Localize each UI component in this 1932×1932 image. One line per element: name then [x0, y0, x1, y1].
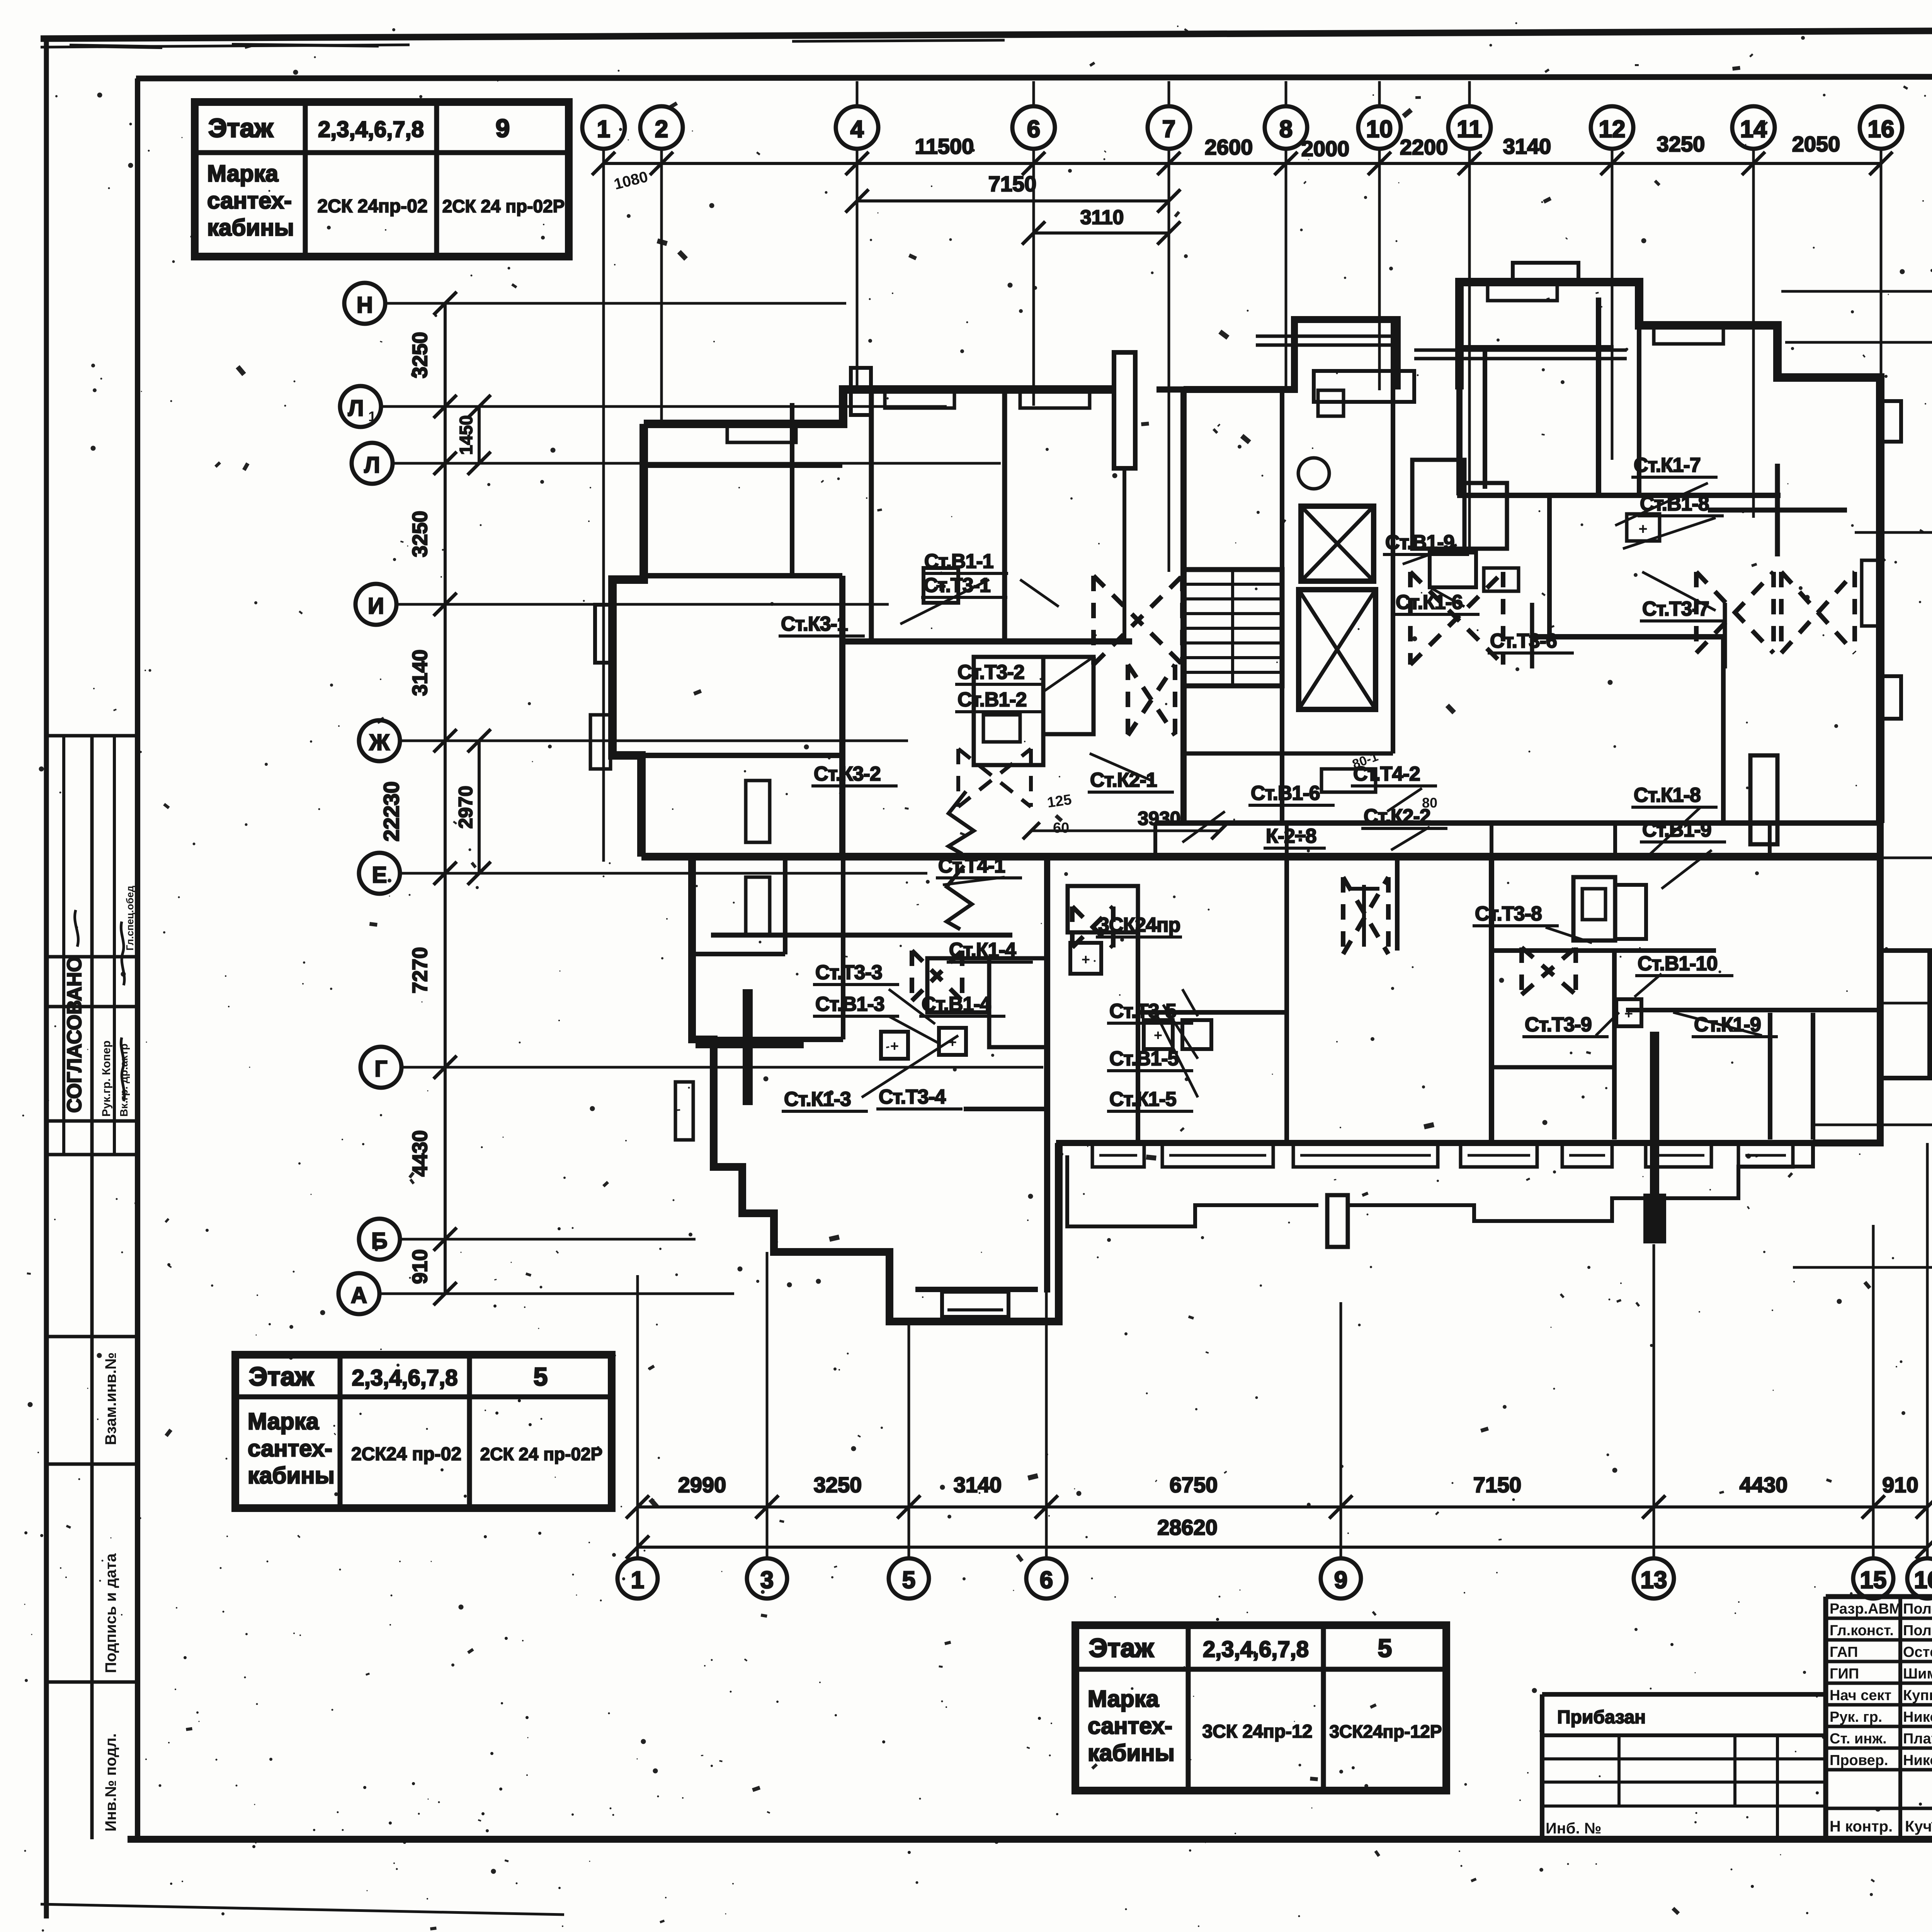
corridor top wall: [1155, 820, 1880, 826]
svg-text:Инб. №: Инб. №: [1546, 1820, 1601, 1837]
lower-right wall east: [1626, 1008, 1878, 1012]
svg-text:Ст.К2-1: Ст.К2-1: [1090, 769, 1157, 791]
svg-text:Остергауз: Остергауз: [1903, 1644, 1932, 1660]
svg-text:3СК24пр-12Р: 3СК24пр-12Р: [1329, 1721, 1442, 1742]
corridor door jambs: [1153, 823, 1157, 857]
lower-left small wall: [964, 1107, 1050, 1111]
page outer border top: [41, 28, 1932, 39]
svg-text:Е: Е: [372, 862, 387, 888]
upper-right room wall: [1457, 493, 1781, 498]
svg-text:Ст.В1-2: Ст.В1-2: [957, 689, 1027, 711]
left secondary dims: [478, 406, 481, 463]
window sills lower-left west steps: [675, 1082, 693, 1140]
svg-text:12: 12: [1599, 116, 1626, 143]
svg-text:Л: Л: [364, 452, 380, 478]
entry canopy: [1314, 371, 1414, 402]
center room wall: [1140, 1010, 1287, 1015]
lower-left cross pier: [696, 1038, 804, 1048]
svg-text:Ст.В1-3: Ст.В1-3: [815, 993, 884, 1015]
svg-text:Николаенко: Николаенко: [1903, 1752, 1932, 1769]
lower-right bathroom cluster: [1573, 877, 1615, 940]
lower-right divider 2: [1612, 952, 1617, 1139]
svg-text:5: 5: [1378, 1634, 1392, 1662]
svg-text:2050: 2050: [1792, 132, 1840, 156]
left sidebar stamp column: [90, 736, 94, 1839]
east balcony bay: [1880, 951, 1930, 1078]
corridor zigzag stack 2: [947, 866, 972, 929]
north window sills upper-left: [727, 424, 796, 442]
axis circle 15 bottom: [1853, 1558, 1893, 1599]
svg-text:2СК 24 пр-02Р: 2СК 24 пр-02Р: [442, 196, 565, 216]
svg-text:4: 4: [850, 116, 864, 143]
svg-text:3: 3: [760, 1567, 774, 1594]
svg-text:2,3,4,6,7,8: 2,3,4,6,7,8: [1203, 1637, 1309, 1662]
tower entry steps: [1256, 335, 1395, 338]
axis circle Н left: [344, 283, 385, 324]
svg-text:Провер.: Провер.: [1830, 1752, 1888, 1769]
upper right fixture: [1627, 514, 1660, 541]
svg-text:2200: 2200: [1400, 135, 1448, 159]
center-right divider: [1284, 857, 1289, 1140]
entry walkway double lines: [1414, 349, 1627, 352]
svg-text:11500: 11500: [915, 134, 974, 158]
svg-text:Николаенко: Николаенко: [1903, 1709, 1932, 1725]
svg-text:Б: Б: [371, 1228, 388, 1253]
svg-text:Ст. инж.: Ст. инж.: [1830, 1731, 1887, 1747]
svg-text:9: 9: [496, 114, 510, 143]
bathroom cluster left: [974, 657, 1043, 765]
svg-text:Ст.В1-10: Ст.В1-10: [1638, 952, 1718, 975]
svg-text:ГИП: ГИП: [1830, 1666, 1859, 1682]
svg-text:+: +: [1638, 520, 1647, 537]
svg-text:2,3,4,6,7,8: 2,3,4,6,7,8: [352, 1366, 457, 1391]
svg-text:10: 10: [1366, 116, 1393, 143]
svg-text:Ст.К1-4: Ст.К1-4: [949, 939, 1016, 961]
inner frame top: [136, 76, 1932, 78]
lower-left room bottom wall: [915, 1287, 1038, 1292]
svg-text:1: 1: [597, 116, 610, 143]
svg-text:13: 13: [1641, 1567, 1667, 1594]
svg-text:Этаж: Этаж: [249, 1362, 314, 1391]
cabin X right of tower: [1410, 572, 1503, 665]
svg-text:910: 910: [1882, 1473, 1918, 1497]
svg-text:Ж: Ж: [369, 730, 390, 755]
svg-text:5: 5: [902, 1567, 915, 1594]
table bottom-left: [235, 1355, 612, 1508]
bottom dimension line 2 (28620): [638, 1546, 1927, 1549]
center lower vertical: [1136, 927, 1140, 1143]
svg-text:6750: 6750: [1170, 1473, 1218, 1497]
axis circle 8 top: [1265, 106, 1307, 149]
sidebar signature scribbles: [121, 1037, 124, 1101]
svg-text:3250: 3250: [1657, 132, 1705, 156]
bottom scan edge line: [41, 1904, 564, 1915]
south window sills: [1092, 1143, 1144, 1167]
svg-text:кабины: кабины: [207, 215, 294, 241]
south outer wall with windows: [1056, 1140, 1813, 1146]
svg-text:Ст.К3-1: Ст.К3-1: [781, 613, 848, 635]
page outer border left: [44, 39, 49, 1918]
svg-text:7: 7: [1162, 116, 1175, 143]
interior wall left wing vertical 2: [1002, 390, 1007, 641]
svg-text:Ст.Т4-1: Ст.Т4-1: [938, 855, 1005, 877]
svg-text:2600: 2600: [1205, 135, 1253, 159]
right axis lines: [1781, 290, 1932, 293]
svg-text:К-2÷8: К-2÷8: [1266, 825, 1316, 847]
svg-text:125: 125: [1046, 791, 1073, 811]
svg-text:+: +: [890, 1038, 899, 1054]
svg-text:9: 9: [1334, 1567, 1347, 1594]
wall between lower-left and center: [1044, 857, 1050, 1293]
svg-text:3СК24пр: 3СК24пр: [1098, 914, 1180, 936]
axis circle Г left: [361, 1047, 401, 1088]
svg-text:Ст.В1-8: Ст.В1-8: [1640, 493, 1709, 515]
svg-text:1450: 1450: [456, 415, 476, 455]
cabin X lower-left: [912, 951, 962, 1001]
axis circle 6 bottom: [1026, 1558, 1066, 1599]
axis circle 3 bottom: [747, 1558, 787, 1599]
svg-text:Ст.К1-3: Ст.К1-3: [784, 1088, 851, 1111]
axis circle 13 bottom: [1634, 1558, 1674, 1599]
tower internal walls: [1280, 390, 1284, 823]
lower-right east edge: [1813, 823, 1880, 1143]
svg-text:14: 14: [1740, 116, 1767, 143]
svg-text:сантех-: сантех-: [248, 1435, 332, 1461]
svg-text:6: 6: [1027, 116, 1040, 143]
svg-text:2СК 24 пр-02Р: 2СК 24 пр-02Р: [480, 1444, 603, 1464]
outer wall: upper-right block: [1459, 282, 1880, 823]
svg-text:22230: 22230: [379, 781, 403, 842]
svg-text:Л: Л: [348, 396, 364, 421]
svg-text:16: 16: [1914, 1567, 1932, 1594]
elevator shaft 1: [1301, 506, 1374, 581]
svg-text:7150: 7150: [1473, 1473, 1522, 1497]
right edge pilaster bumps: [1880, 401, 1901, 442]
inner frame bottom: [128, 1836, 1932, 1843]
axis drop lines top: [602, 147, 605, 862]
svg-text:Ст.В1-5: Ст.В1-5: [1109, 1048, 1179, 1070]
cabin X upper right: [1696, 572, 1774, 653]
upper-right lower room wall: [1532, 634, 1725, 639]
axis circle 4 top: [836, 106, 878, 149]
lower-left bathroom cluster: [927, 958, 989, 1012]
svg-text:2990: 2990: [678, 1473, 726, 1497]
left axis lines: [445, 302, 846, 305]
svg-text:3930: 3930: [1138, 808, 1180, 829]
svg-text:А: А: [351, 1283, 367, 1308]
bottom sill protrusion left: [942, 1292, 1009, 1317]
axis circle Л left: [352, 443, 393, 484]
top secondary dimension 7150: [857, 199, 1169, 202]
axis circle А left: [338, 1273, 379, 1314]
axis circle 9 bottom: [1321, 1558, 1361, 1599]
title block outline: [1823, 1597, 1828, 1839]
machine room box: [1318, 390, 1344, 416]
table bottom-center: [1075, 1625, 1446, 1791]
top dimension line: [604, 162, 1881, 165]
svg-text:2: 2: [655, 116, 668, 143]
svg-text:3140: 3140: [1503, 134, 1551, 158]
svg-text:4430: 4430: [408, 1130, 432, 1177]
interior wall under left rooms: [842, 638, 1132, 645]
lower-right room wall: [1492, 948, 1716, 953]
svg-text:Ст.К1-5: Ст.К1-5: [1109, 1088, 1176, 1111]
svg-text:3140: 3140: [408, 650, 432, 696]
svg-text:80: 80: [1422, 795, 1437, 811]
top border smudges: [70, 46, 162, 47]
lower-left room wall 2: [783, 857, 787, 954]
svg-text:5: 5: [534, 1362, 548, 1391]
lower-left room divider: [692, 1037, 843, 1042]
svg-text:Прибазан: Прибазан: [1557, 1707, 1646, 1728]
svg-text:7150: 7150: [988, 172, 1037, 196]
axis stubs to top frame: [856, 81, 859, 107]
svg-text:Марка: Марка: [248, 1408, 319, 1434]
svg-text:Ст.К1-7: Ст.К1-7: [1634, 454, 1701, 476]
axis circle 5 bottom: [889, 1558, 929, 1599]
axis circle 16 top: [1860, 106, 1902, 149]
axis circle 1 bottom: [617, 1558, 658, 1599]
corridor pier right: [1750, 755, 1777, 844]
svg-text:3110: 3110: [1080, 206, 1124, 229]
svg-text:СОГЛАСОВАНО: СОГЛАСОВАНО: [63, 956, 86, 1113]
svg-text:11: 11: [1457, 116, 1482, 143]
svg-text:Ст.К2-2: Ст.К2-2: [1364, 805, 1430, 828]
center sanitary cluster: [1068, 886, 1138, 932]
upper-right interior vertical: [1596, 298, 1601, 495]
svg-text:сантех-: сантех-: [207, 188, 292, 214]
sink fixture: [1298, 458, 1329, 489]
svg-text:2СК24 пр-02: 2СК24 пр-02: [351, 1444, 461, 1464]
axis circle 1 top: [582, 106, 625, 149]
lower-right room wall 2: [1492, 1065, 1616, 1070]
svg-text:2,3,4,6,7,8: 2,3,4,6,7,8: [318, 117, 424, 142]
lower-left vertical: [841, 857, 845, 1039]
wall pier small: [851, 368, 871, 415]
elevator shaft 2: [1299, 590, 1376, 709]
svg-text:Г: Г: [375, 1056, 388, 1082]
svg-text:Н контр.: Н контр.: [1830, 1818, 1893, 1835]
svg-text:Полстовалов: Полстовалов: [1903, 1601, 1932, 1617]
svg-text:1: 1: [631, 1567, 644, 1594]
lower-right extra dividers: [1811, 1013, 1815, 1139]
axis circle И left: [355, 584, 396, 625]
svg-text:Кучеренко: Кучеренко: [1905, 1818, 1932, 1835]
svg-text:Ст.Т3-3: Ст.Т3-3: [815, 961, 882, 984]
svg-text:3140: 3140: [954, 1473, 1002, 1497]
svg-text:Польшин: Польшин: [1903, 1622, 1932, 1639]
svg-text:Гл.конст.: Гл.конст.: [1830, 1622, 1894, 1639]
svg-text:Гл.спец.обед: Гл.спец.обед: [124, 886, 136, 951]
top tertiary dimension 3110: [1034, 231, 1169, 235]
cabin X at corridor left: [958, 749, 1031, 807]
east edge sill: [1862, 560, 1880, 626]
upper-right cross wall: [1708, 508, 1847, 513]
cabin X center (3СК24пр): [1072, 906, 1113, 947]
south bar pier: [1646, 1196, 1664, 1241]
svg-text:Ст.К1-6: Ст.К1-6: [1396, 591, 1463, 614]
stair tower top: [1156, 389, 1184, 823]
axis circle Ж left: [359, 720, 400, 761]
axis circle 7 top: [1148, 106, 1190, 149]
balcony bump left: [595, 605, 614, 663]
svg-text:Разр.АВМ: Разр.АВМ: [1830, 1601, 1901, 1617]
svg-text:2970: 2970: [455, 786, 476, 828]
svg-text:7270: 7270: [408, 947, 432, 993]
svg-text:ГАП: ГАП: [1830, 1644, 1858, 1660]
svg-text:3250: 3250: [408, 511, 432, 557]
building outer wall: upper-left wing top: [644, 389, 1115, 424]
axis rise lines bottom: [636, 1275, 639, 1558]
svg-text:60: 60: [1053, 820, 1069, 836]
svg-text:Рук. гр.: Рук. гр.: [1830, 1709, 1882, 1725]
upper-right interior walls extra: [1459, 345, 1614, 350]
svg-text:Подпись и дата: Подпись и дата: [102, 1553, 119, 1673]
window sills right block top: [1488, 282, 1557, 301]
svg-text:Марка: Марка: [207, 161, 279, 187]
axis circle 10 top: [1358, 106, 1401, 149]
svg-text:Взам.инв.№: Взам.инв.№: [102, 1352, 119, 1445]
svg-text:Купырев: Купырев: [1903, 1687, 1932, 1704]
svg-text:Ст.В1-4: Ст.В1-4: [922, 993, 991, 1015]
interior wall left wing vertical 3: [839, 576, 845, 857]
ventilation shaft pier: [1114, 352, 1135, 468]
south extension outline: [1067, 1155, 1318, 1226]
interior wall room divider: [644, 573, 842, 578]
axis circle 12 top: [1591, 106, 1633, 149]
axis circle Л1 left: [340, 386, 381, 427]
lower-right divider 1: [1489, 857, 1494, 1140]
pributazan box: [1542, 1692, 1826, 1697]
left dimension vertical line: [444, 303, 447, 1294]
svg-text:Ст.Т3-4: Ст.Т3-4: [879, 1086, 946, 1108]
inner frame left: [135, 78, 140, 1841]
svg-text:Нач сект: Нач сект: [1830, 1687, 1891, 1704]
svg-text:16: 16: [1868, 116, 1895, 143]
parapet above top wall: [1513, 263, 1578, 283]
sanitary cabin X stair left: [1128, 665, 1175, 735]
svg-text:2СК 24пр-02: 2СК 24пр-02: [317, 196, 427, 217]
west step sills: [746, 781, 770, 842]
svg-text:Ст.Т3-9: Ст.Т3-9: [1525, 1014, 1592, 1036]
lower-right fixture: [1616, 999, 1641, 1026]
svg-text:+: +: [1154, 1027, 1162, 1044]
cabin X upper right second: [1781, 572, 1855, 653]
left wing lower room wall: [612, 753, 842, 758]
lower-right pier: [1650, 1032, 1659, 1198]
svg-text:2000: 2000: [1301, 136, 1350, 161]
svg-text:Ст.Т3-8: Ст.Т3-8: [1475, 903, 1542, 925]
axis circle 16 bottom: [1907, 1558, 1932, 1599]
cabin X center-right: [1343, 877, 1388, 954]
cabin X lower-right: [1522, 947, 1576, 995]
svg-text:Этаж: Этаж: [1089, 1633, 1154, 1663]
svg-text:Инв.№ подл.: Инв.№ подл.: [102, 1733, 119, 1832]
svg-text:1: 1: [368, 408, 376, 424]
svg-text:910: 910: [408, 1249, 432, 1284]
corridor zigzag stack 1: [949, 791, 974, 854]
svg-text:Рук.гр. Копер: Рук.гр. Копер: [100, 1041, 113, 1117]
label leader lines: [1020, 580, 1059, 607]
svg-text:Этаж: Этаж: [208, 114, 273, 143]
right block left edge: [1456, 282, 1463, 495]
svg-text:Марка: Марка: [1088, 1686, 1159, 1712]
svg-text:3250: 3250: [814, 1473, 862, 1497]
svg-text:сантех-: сантех-: [1088, 1713, 1172, 1739]
svg-text:Платонова: Платонова: [1903, 1731, 1932, 1747]
svg-text:Ст.В1-1: Ст.В1-1: [924, 550, 993, 573]
svg-text:Ст.Т3-2: Ст.Т3-2: [957, 661, 1024, 684]
svg-text:Ст.К1-8: Ст.К1-8: [1634, 784, 1701, 806]
sanitary cabin X left upper: [1094, 576, 1182, 665]
corridor bottom wall: [641, 853, 1880, 861]
svg-text:кабины: кабины: [248, 1463, 335, 1488]
svg-text:28620: 28620: [1157, 1515, 1218, 1539]
svg-text:3250: 3250: [408, 332, 432, 378]
axis circle Б left: [359, 1219, 400, 1260]
left wing room divider vertical: [790, 403, 794, 576]
svg-text:4430: 4430: [1740, 1473, 1788, 1497]
room bottom wall left-mid: [711, 933, 1012, 938]
table top-left: [195, 102, 569, 257]
svg-text:Н: Н: [357, 293, 373, 318]
interior wall left wing vertical 1: [869, 390, 874, 641]
svg-text:Ст.В1-6: Ст.В1-6: [1251, 782, 1320, 804]
tower lower lobby walls: [1184, 752, 1393, 756]
sanitary unit right of tower: [1412, 460, 1464, 549]
bottom dimension line 1: [638, 1505, 1927, 1509]
svg-text:8: 8: [1279, 116, 1293, 143]
outer wall: upper-left left edge: [612, 424, 644, 857]
left wing second band: [644, 464, 842, 468]
svg-text:Ст.Т3-6: Ст.Т3-6: [1490, 630, 1557, 652]
axis circle 6 top: [1012, 106, 1055, 149]
svg-text:кабины: кабины: [1088, 1740, 1175, 1766]
svg-text:+: +: [1082, 952, 1090, 968]
svg-text:15: 15: [1860, 1567, 1887, 1594]
svg-text:Шимарчев: Шимарчев: [1903, 1666, 1932, 1682]
stairwell: [1184, 570, 1282, 686]
outer wall: lower-left stepped edge: [692, 857, 1059, 1321]
axis circle 11 top: [1448, 106, 1491, 149]
svg-text:6: 6: [1040, 1567, 1053, 1594]
svg-text:Ст.К3-2: Ст.К3-2: [814, 763, 881, 785]
axis circle 2 top: [640, 106, 683, 149]
axis circle 14 top: [1732, 106, 1775, 149]
left edge sill: [590, 715, 611, 769]
svg-text:3СК 24пр-12: 3СК 24пр-12: [1202, 1721, 1312, 1742]
axis circle Е left: [359, 853, 400, 894]
svg-text:И: И: [368, 594, 384, 619]
